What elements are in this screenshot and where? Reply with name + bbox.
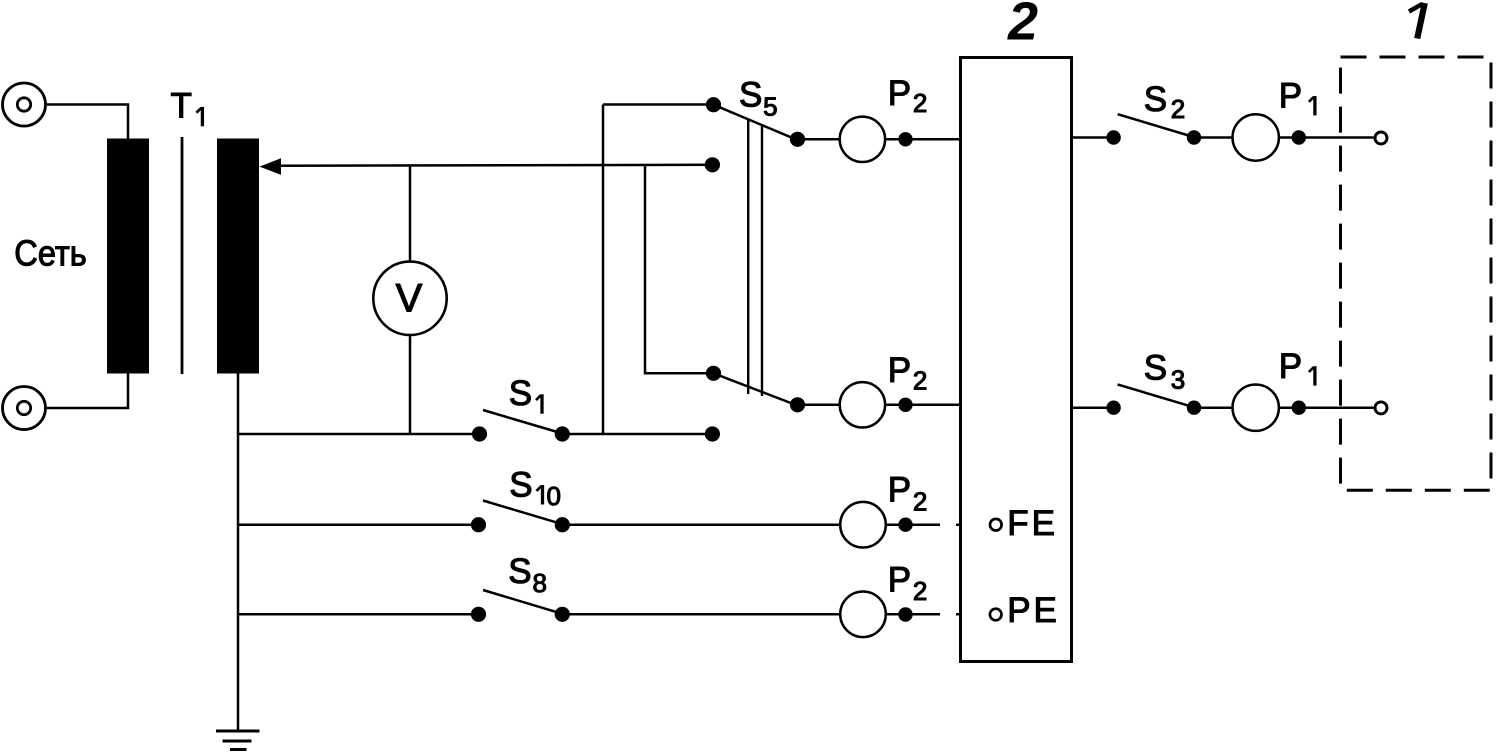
svg-text:S: S bbox=[509, 374, 532, 413]
svg-text:2: 2 bbox=[913, 487, 927, 517]
svg-text:S: S bbox=[739, 75, 762, 114]
svg-text:S: S bbox=[1144, 80, 1167, 119]
svg-text:2: 2 bbox=[913, 88, 927, 118]
svg-text:S: S bbox=[508, 552, 531, 591]
svg-text:V: V bbox=[396, 277, 423, 321]
svg-text:FE: FE bbox=[1007, 504, 1058, 543]
svg-text:2: 2 bbox=[1007, 0, 1038, 52]
svg-text:5: 5 bbox=[763, 91, 777, 121]
svg-text:P: P bbox=[888, 560, 911, 599]
svg-text:2: 2 bbox=[913, 365, 927, 395]
svg-text:P: P bbox=[1279, 347, 1302, 386]
svg-text:S: S bbox=[509, 465, 532, 504]
svg-text:2: 2 bbox=[1171, 94, 1185, 124]
svg-text:3: 3 bbox=[1171, 364, 1185, 394]
svg-text:P: P bbox=[888, 74, 911, 113]
svg-text:T: T bbox=[171, 87, 192, 126]
svg-text:P: P bbox=[888, 351, 911, 390]
svg-text:P: P bbox=[1279, 77, 1302, 116]
svg-text:Сеть: Сеть bbox=[14, 233, 87, 274]
svg-text:P: P bbox=[888, 470, 911, 509]
svg-text:0: 0 bbox=[547, 481, 561, 511]
svg-text:PE: PE bbox=[1007, 591, 1060, 630]
svg-text:S: S bbox=[1144, 349, 1167, 388]
svg-text:8: 8 bbox=[533, 568, 547, 598]
svg-text:2: 2 bbox=[913, 576, 927, 606]
